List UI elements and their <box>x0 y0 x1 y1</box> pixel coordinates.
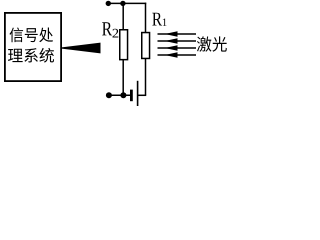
junction: R2 bottom node <box>120 92 126 98</box>
label 激光 (laser) <box>197 36 227 51</box>
label R2 <box>102 22 118 37</box>
wire: top rail <box>108 2 146 4</box>
wire: bottom rail <box>109 94 130 96</box>
node: bottom-left output terminal <box>106 92 112 98</box>
resistor R2 <box>120 30 128 60</box>
signal output arrow into box <box>62 43 101 54</box>
laser beam arrow 3 <box>158 45 197 51</box>
box label line 1: 信号处 <box>10 28 53 43</box>
wire: R2 top lead <box>122 3 124 30</box>
resistor R1 (photoresistor) <box>142 33 150 59</box>
battery negative plate (short) <box>130 90 133 102</box>
box label line 2: 理系统 <box>8 48 54 63</box>
laser beam arrow 2 <box>158 38 197 44</box>
label R1 <box>152 13 166 26</box>
wire: R2 bottom lead <box>122 60 124 96</box>
laser beam arrow 4 <box>158 52 197 58</box>
wire: R1 bottom lead <box>145 58 147 95</box>
signal-processing-system box <box>5 13 61 81</box>
wire: top-right drop to R1 <box>145 3 147 33</box>
wire: battery to R1 branch <box>138 94 147 96</box>
battery positive plate (long) <box>137 81 139 107</box>
junction: R2 top node <box>120 1 125 6</box>
laser beam arrow 1 <box>158 31 197 37</box>
node: top-left output terminal <box>106 1 111 6</box>
